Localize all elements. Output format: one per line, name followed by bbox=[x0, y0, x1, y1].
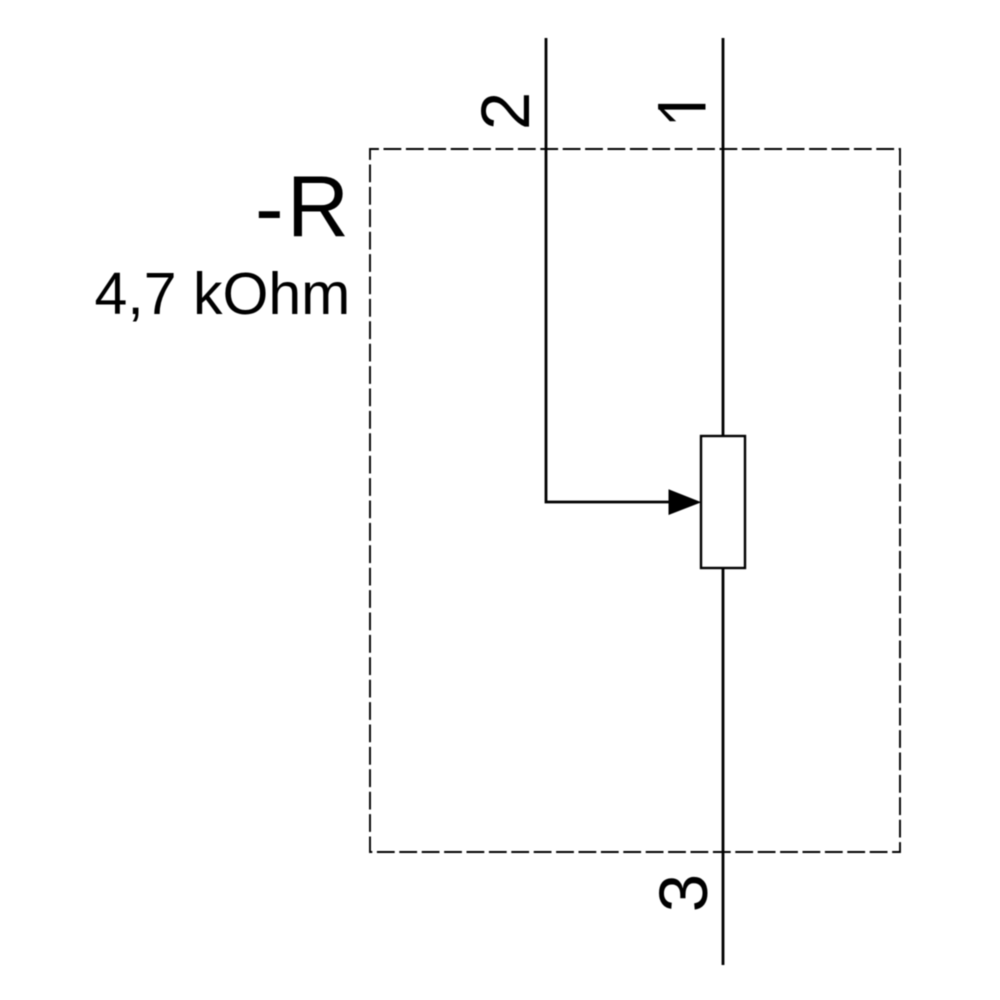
wiper arrow bbox=[669, 490, 700, 514]
svg-text:3: 3 bbox=[645, 874, 722, 912]
wire pin 2 vertical + horizontal wiper lead bbox=[546, 38, 669, 502]
wire pin 3 vertical bbox=[722, 568, 725, 965]
pin 1 label bbox=[658, 104, 705, 121]
wire pin 1 vertical bbox=[722, 38, 725, 436]
resistor body R bbox=[701, 436, 745, 568]
svg-text:-: - bbox=[255, 160, 284, 256]
svg-text:2: 2 bbox=[467, 92, 544, 130]
component outline dashed box bbox=[370, 149, 900, 852]
svg-text:R: R bbox=[287, 159, 349, 255]
svg-text:4,7 kOhm: 4,7 kOhm bbox=[95, 261, 351, 327]
